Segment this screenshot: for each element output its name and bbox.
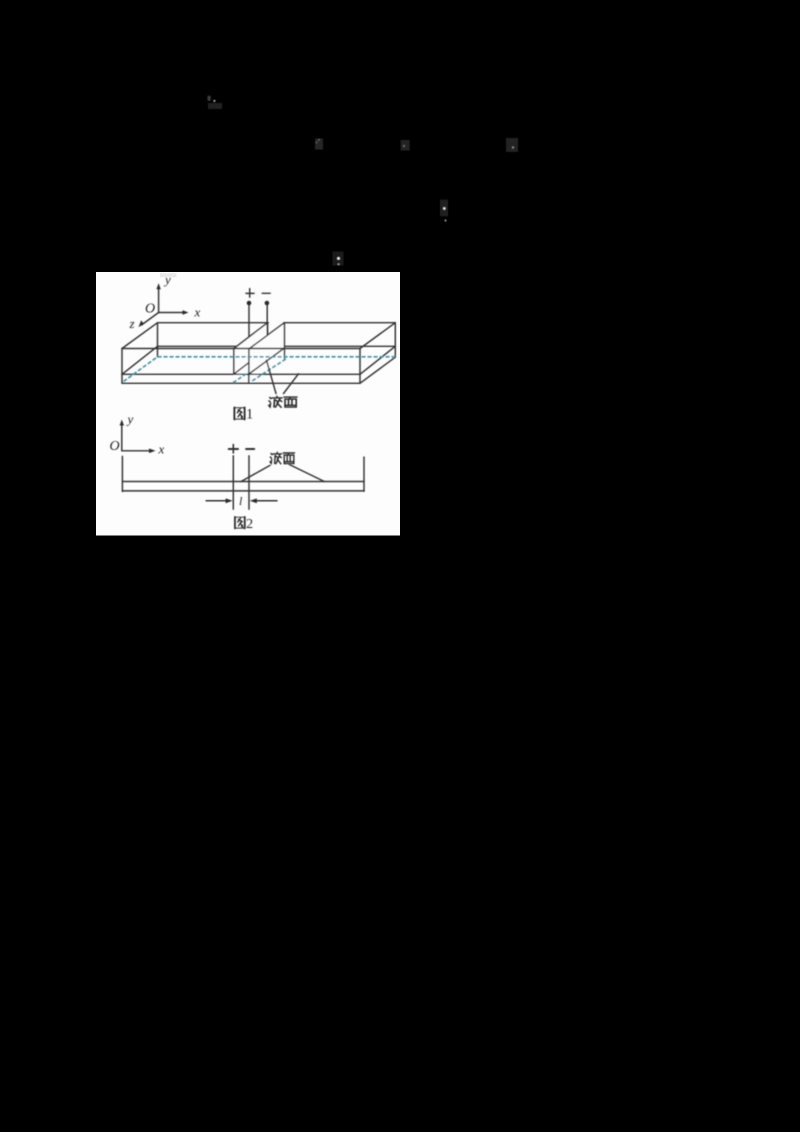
svg-text:x: x xyxy=(158,442,165,457)
svg-text:y: y xyxy=(163,272,171,287)
svg-text:O: O xyxy=(145,302,155,317)
svg-text:1: 1 xyxy=(246,407,253,423)
svg-text:y: y xyxy=(126,412,134,427)
svg-text:O: O xyxy=(110,439,120,454)
svg-text:z: z xyxy=(129,316,135,331)
svg-text:x: x xyxy=(194,305,201,320)
svg-text:2: 2 xyxy=(246,517,253,532)
